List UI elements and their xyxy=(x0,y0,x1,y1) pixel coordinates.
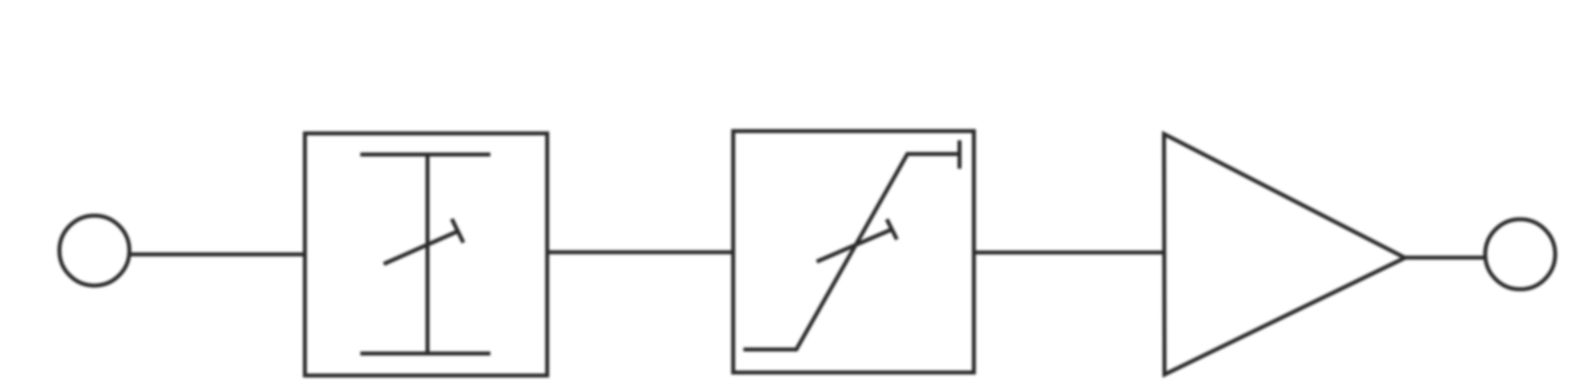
attenuator I-beam symbol xyxy=(360,155,490,354)
wire input to attenuator xyxy=(131,252,305,256)
variable attenuator block box xyxy=(305,133,547,375)
output terminal circle xyxy=(1485,219,1555,289)
amplifier triangle xyxy=(1164,134,1405,375)
preset adjustment arrow of attenuator xyxy=(384,219,464,264)
wire amplifier to output xyxy=(1405,256,1484,260)
limiter transfer curve xyxy=(743,140,959,349)
preset adjustment arrow of limiter xyxy=(817,219,897,261)
input terminal circle xyxy=(59,216,129,286)
wire limiter to amplifier xyxy=(974,251,1164,255)
wire attenuator to limiter xyxy=(547,250,733,254)
limiter block box xyxy=(733,131,974,372)
